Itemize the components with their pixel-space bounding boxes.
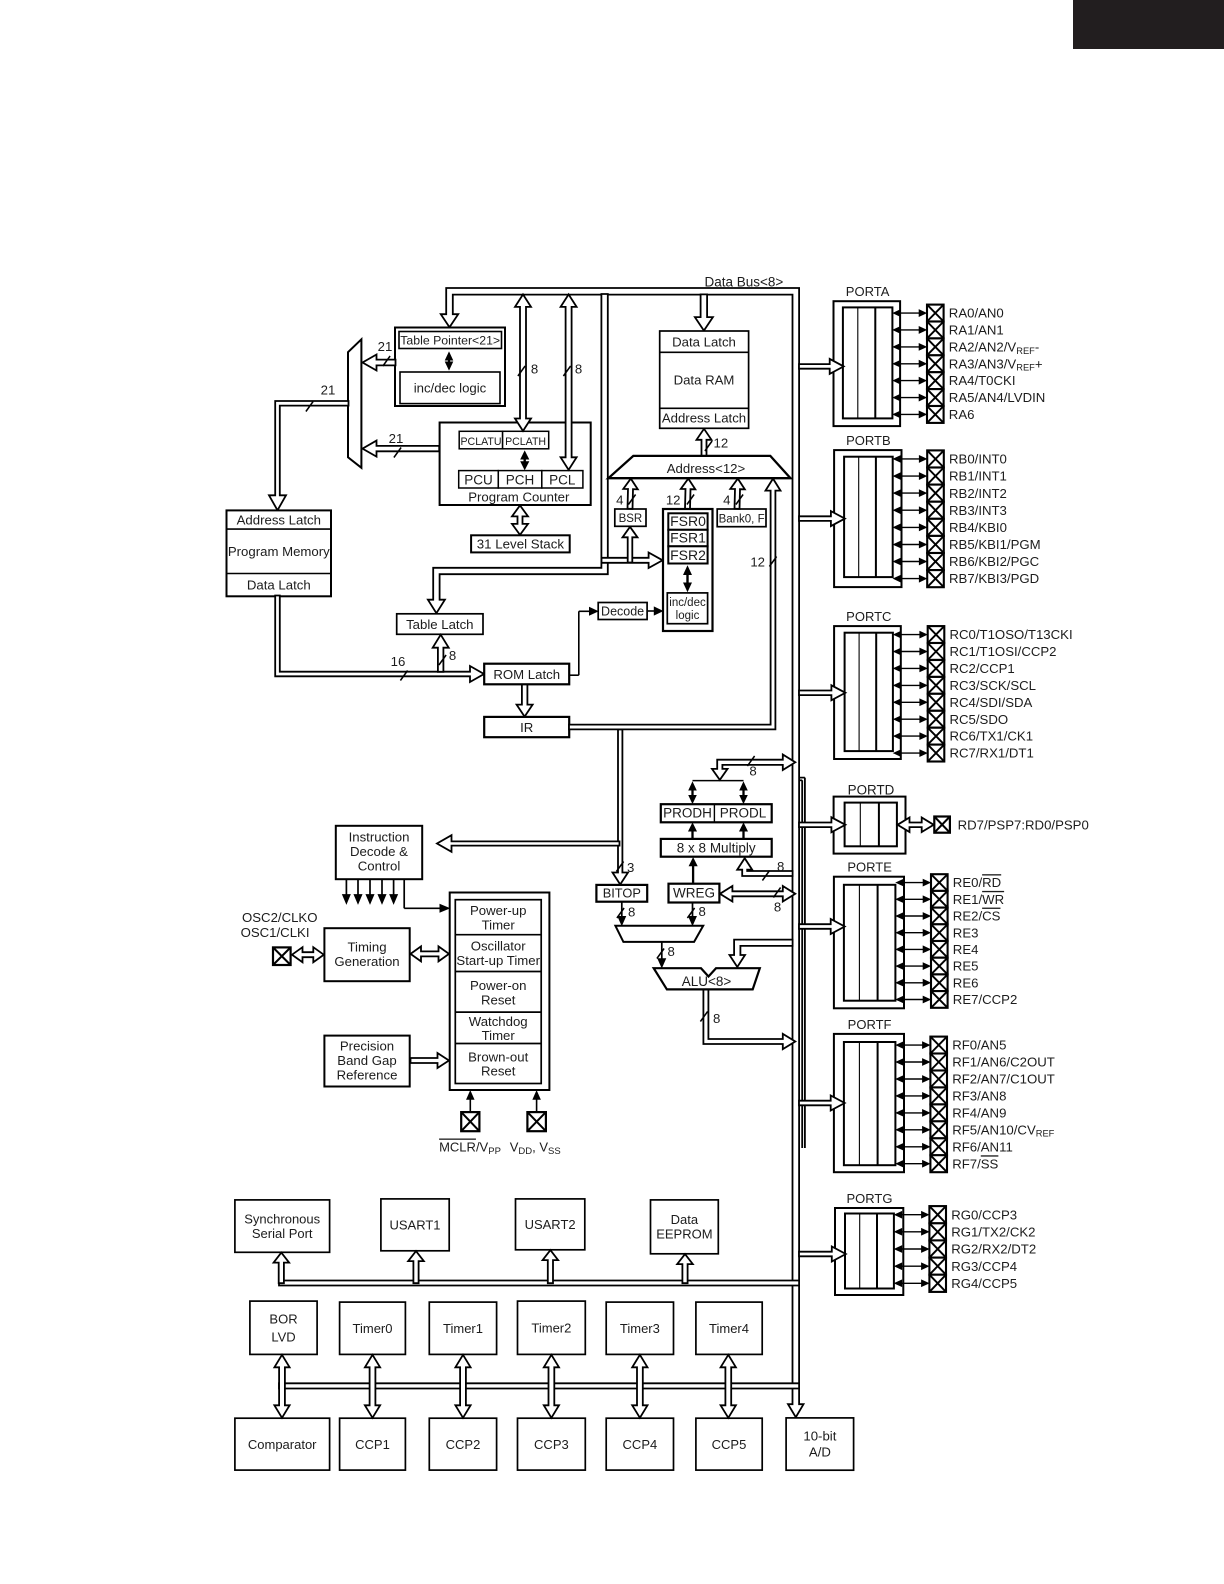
svg-text:RC7/RX1/DT1: RC7/RX1/DT1 xyxy=(950,746,1034,761)
wire: data bus to PORTA xyxy=(799,359,844,374)
svg-text:RA6: RA6 xyxy=(949,407,975,422)
register FSR0 xyxy=(668,513,707,530)
svg-text:PORTF: PORTF xyxy=(848,1017,892,1032)
svg-text:PORTD: PORTD xyxy=(848,783,895,798)
svg-text:OSC2/CLKO: OSC2/CLKO xyxy=(242,910,318,925)
wire: 8-bit bus to PCLATU/PCLATH xyxy=(515,294,531,431)
svg-text:USART1: USART1 xyxy=(389,1217,440,1232)
svg-text:31 Level Stack: 31 Level Stack xyxy=(477,536,565,551)
wire: Decode to FSR inc/dec xyxy=(648,610,657,612)
wire: PC to 31 Level Stack arrow xyxy=(512,505,528,535)
svg-text:Timing: Timing xyxy=(347,940,386,955)
black header bar (page corner) xyxy=(1073,0,1224,49)
svg-text:12: 12 xyxy=(750,555,765,570)
block: Precision Band Gap Reference xyxy=(324,1036,409,1087)
svg-text:RF7/SS: RF7/SS xyxy=(952,1156,998,1171)
svg-text:Timer3: Timer3 xyxy=(620,1321,660,1336)
PORTC pin pads xyxy=(928,626,945,643)
svg-text:Timer: Timer xyxy=(482,918,516,933)
mux: ALU input mux xyxy=(615,926,703,942)
svg-text:IR: IR xyxy=(520,720,533,735)
svg-text:Timer: Timer xyxy=(482,1028,516,1043)
svg-text:RA0/AN0: RA0/AN0 xyxy=(949,306,1004,321)
block: Timer4 xyxy=(696,1302,762,1354)
block: Timing Generation xyxy=(324,928,409,981)
svg-text:RG4/CCP5: RG4/CCP5 xyxy=(951,1276,1017,1291)
svg-text:RE1/WR: RE1/WR xyxy=(953,892,1004,907)
svg-text:RE3: RE3 xyxy=(953,925,979,940)
alu: ALU<8> xyxy=(654,968,760,989)
svg-text:RB4/KBI0: RB4/KBI0 xyxy=(949,520,1007,535)
wire: data bus to PORTE xyxy=(799,919,845,934)
svg-text:RE0/RD: RE0/RD xyxy=(953,875,1001,890)
wire: PRODH/PRODL to data bus xyxy=(712,755,795,780)
wire: peripheral bus row 2 (timers) xyxy=(279,1383,799,1388)
block: 31 Level Stack xyxy=(471,535,570,552)
svg-text:logic: logic xyxy=(676,610,700,622)
svg-text:8: 8 xyxy=(749,764,756,779)
svg-text:RF2/AN7/C1OUT: RF2/AN7/C1OUT xyxy=(952,1072,1055,1087)
PORTG pin pads xyxy=(929,1206,946,1223)
svg-text:Address Latch: Address Latch xyxy=(237,512,321,527)
svg-text:BOR: BOR xyxy=(269,1311,297,1326)
svg-text:BITOP: BITOP xyxy=(603,885,641,900)
wire: 16-bit bus Program Memory data latch to ROM Latch xyxy=(275,596,484,683)
block: Timer1 xyxy=(429,1302,496,1354)
block: CCP5 xyxy=(696,1418,762,1470)
svg-text:PCL: PCL xyxy=(549,472,576,487)
wire: PRODH vertical arrows xyxy=(691,788,693,798)
svg-text:RE4: RE4 xyxy=(953,942,979,957)
svg-text:OSC1/CLKI: OSC1/CLKI xyxy=(241,925,310,940)
block: USART2 xyxy=(516,1199,585,1250)
wire: 21-bit bus Table Pointer to mux xyxy=(363,355,396,371)
svg-text:Decode &: Decode & xyxy=(350,844,408,859)
svg-text:RC5/SDO: RC5/SDO xyxy=(950,712,1009,727)
svg-text:ALU<8>: ALU<8> xyxy=(682,974,732,989)
block: 8 x 8 Multiply xyxy=(661,839,772,857)
register Table Pointer<21> xyxy=(399,332,502,349)
svg-text:12: 12 xyxy=(714,436,729,451)
svg-text:USART2: USART2 xyxy=(525,1217,576,1232)
svg-text:Data Latch: Data Latch xyxy=(672,334,736,349)
register FSR1 xyxy=(668,530,707,547)
svg-text:inc/dec: inc/dec xyxy=(669,597,706,609)
svg-text:RE5: RE5 xyxy=(953,959,979,974)
PORTF pin arrows and labels xyxy=(901,1044,924,1046)
svg-text:RD7/PSP7:RD0/PSP0: RD7/PSP7:RD0/PSP0 xyxy=(958,817,1089,832)
svg-text:RE2/CS: RE2/CS xyxy=(953,909,1001,924)
svg-text:8 x 8 Multiply: 8 x 8 Multiply xyxy=(677,841,756,856)
wire: bus to USART2 xyxy=(543,1250,559,1283)
svg-text:PCU: PCU xyxy=(464,472,493,487)
svg-text:CCP3: CCP3 xyxy=(534,1437,569,1452)
svg-text:Address<12>: Address<12> xyxy=(667,461,746,476)
svg-text:Watchdog: Watchdog xyxy=(469,1014,528,1029)
svg-text:8: 8 xyxy=(575,362,582,377)
block: 10-bit A/D xyxy=(786,1418,854,1470)
svg-text:8: 8 xyxy=(777,859,784,874)
wire: data bus to PORTD xyxy=(799,817,845,832)
block: ROM Latch xyxy=(484,664,569,685)
svg-text:RB7/KBI3/PGD: RB7/KBI3/PGD xyxy=(949,571,1039,586)
svg-text:Timer0: Timer0 xyxy=(353,1321,393,1336)
svg-text:PORTC: PORTC xyxy=(846,609,891,624)
svg-text:Comparator: Comparator xyxy=(248,1437,317,1452)
svg-text:PORTA: PORTA xyxy=(846,284,890,299)
block: CCP3 xyxy=(518,1418,586,1470)
svg-text:PRODL: PRODL xyxy=(720,806,767,821)
wire: data bus to PORTF xyxy=(799,1096,845,1111)
wire: data bus feed into multiply xyxy=(737,858,792,876)
wire: control signal arrows xyxy=(345,880,347,898)
svg-text:Brown-out: Brown-out xyxy=(468,1049,528,1064)
svg-text:Data: Data xyxy=(671,1212,699,1227)
svg-text:8: 8 xyxy=(699,904,706,919)
svg-text:RC1/T1OSI/CCP2: RC1/T1OSI/CCP2 xyxy=(950,644,1057,659)
wire: WREG to ALU mux xyxy=(692,903,694,919)
pin: RD7..RD0 pad xyxy=(934,817,950,833)
block: Comparator xyxy=(235,1418,330,1470)
block: Program Counter group xyxy=(440,423,591,506)
svg-text:16: 16 xyxy=(391,654,406,669)
PORTE pin pads xyxy=(931,874,948,891)
svg-text:8: 8 xyxy=(628,905,635,920)
block: BOR LVD xyxy=(250,1301,317,1354)
pin: MCLR/VPP pad xyxy=(461,1112,479,1131)
svg-text:RA4/T0CKI: RA4/T0CKI xyxy=(949,373,1016,388)
wire: Timing Generation to reset block xyxy=(411,946,450,961)
svg-text:RE6: RE6 xyxy=(953,975,979,990)
svg-text:Decode: Decode xyxy=(601,605,644,619)
register WREG xyxy=(669,884,720,903)
svg-text:Timer1: Timer1 xyxy=(443,1321,483,1336)
svg-text:RF1/AN6/C2OUT: RF1/AN6/C2OUT xyxy=(952,1055,1055,1070)
PORTG pin arrows and labels xyxy=(900,1214,924,1216)
wire: 12-bit address to Data RAM address latch xyxy=(697,429,712,456)
svg-text:8: 8 xyxy=(668,944,675,959)
svg-text:Bank0, F: Bank0, F xyxy=(719,513,765,525)
register PCLATU xyxy=(459,431,502,449)
PORTA pin pads xyxy=(927,305,944,322)
block: FSR group xyxy=(663,509,713,631)
wire: 8-bit bus to PCL xyxy=(561,294,577,469)
wire: peripheral bus row 1 xyxy=(279,1281,799,1286)
svg-text:Reset: Reset xyxy=(481,1063,516,1078)
svg-text:RB1/INT1: RB1/INT1 xyxy=(949,469,1007,484)
svg-text:Program Memory: Program Memory xyxy=(228,544,330,559)
svg-text:ROM Latch: ROM Latch xyxy=(493,667,560,682)
block: Synchronous Serial Port xyxy=(235,1200,330,1252)
svg-text:PRODH: PRODH xyxy=(663,806,712,821)
block: Data EEPROM xyxy=(651,1200,719,1254)
svg-text:Serial Port: Serial Port xyxy=(252,1226,313,1241)
svg-text:RG0/CCP3: RG0/CCP3 xyxy=(951,1207,1017,1222)
wire: bus branch to Table Latch xyxy=(428,294,608,613)
register PRODH PRODL xyxy=(661,804,772,822)
svg-text:FSR0: FSR0 xyxy=(670,513,706,529)
wire: table pointer to inc/dec arrow xyxy=(448,358,450,364)
wire: FSR 12-bit into address mux xyxy=(681,479,696,509)
mux: program memory address multiplexer xyxy=(348,339,361,468)
svg-text:Power-on: Power-on xyxy=(470,978,526,993)
svg-text:8: 8 xyxy=(531,362,538,377)
wire: bus to Data xyxy=(677,1254,693,1283)
wire: PCLATH-PCH arrow xyxy=(524,457,526,464)
wire: BSR 4-bit into address mux xyxy=(623,479,638,509)
svg-text:FSR2: FSR2 xyxy=(670,547,706,563)
PORTC pin arrows and labels xyxy=(899,634,922,636)
block: Table Latch xyxy=(397,614,483,635)
svg-text:RF6/AN11: RF6/AN11 xyxy=(952,1139,1013,1154)
svg-text:EEPROM: EEPROM xyxy=(656,1227,712,1242)
svg-text:CCP1: CCP1 xyxy=(355,1437,390,1452)
svg-text:RA1/AN1: RA1/AN1 xyxy=(949,323,1004,338)
block: CCP4 xyxy=(606,1418,673,1470)
wire: band gap to reset block xyxy=(411,1053,450,1068)
svg-text:Start-up Timer: Start-up Timer xyxy=(456,953,540,968)
wire: ROM Latch to IR xyxy=(517,685,533,717)
svg-text:PORTB: PORTB xyxy=(846,433,891,448)
wire: Bank0,F 4-bit into address mux xyxy=(730,479,745,509)
svg-text:RA5/AN4/LVDIN: RA5/AN4/LVDIN xyxy=(949,390,1046,405)
block: BITOP xyxy=(596,885,647,902)
svg-text:LVD: LVD xyxy=(271,1329,295,1344)
PORTE pin arrows and labels xyxy=(901,882,925,884)
block: CCP2 xyxy=(429,1418,496,1470)
svg-text:Generation: Generation xyxy=(334,954,399,969)
svg-text:RF0/AN5: RF0/AN5 xyxy=(952,1038,1006,1053)
block: Instruction Decode & Control xyxy=(336,826,422,879)
svg-text:RC2/CCP1: RC2/CCP1 xyxy=(950,661,1015,676)
PORTB pin arrows and labels xyxy=(899,458,922,460)
wire: mux to ALU xyxy=(661,943,663,962)
svg-text:RC4/SDI/SDA: RC4/SDI/SDA xyxy=(950,695,1033,710)
svg-text:CCP5: CCP5 xyxy=(712,1437,747,1452)
svg-text:PORTG: PORTG xyxy=(847,1191,893,1206)
block: Timer0 xyxy=(340,1302,406,1354)
svg-text:PCH: PCH xyxy=(506,472,535,487)
svg-text:Precision: Precision xyxy=(340,1039,394,1054)
mux: Address<12> xyxy=(608,456,790,478)
svg-text:Power-up: Power-up xyxy=(470,903,526,918)
register PCLATH xyxy=(503,431,549,449)
PORTA pin arrows and labels xyxy=(898,312,921,314)
svg-text:Reset: Reset xyxy=(481,992,516,1007)
register PCU xyxy=(459,471,499,488)
svg-text:21: 21 xyxy=(389,431,404,446)
svg-text:RF5/AN10/CVREF: RF5/AN10/CVREF xyxy=(952,1122,1054,1138)
svg-text:12: 12 xyxy=(666,493,681,508)
block inc/dec logic (table pointer) xyxy=(400,372,500,404)
block: CCP1 xyxy=(340,1418,406,1470)
svg-text:8: 8 xyxy=(713,1011,720,1026)
block: Address Latch / Program Memory / Data Latch xyxy=(227,510,332,596)
svg-text:BSR: BSR xyxy=(619,513,643,525)
svg-text:RG1/TX2/CK2: RG1/TX2/CK2 xyxy=(951,1224,1035,1239)
block: IR instruction register xyxy=(484,717,569,737)
svg-text:A/D: A/D xyxy=(809,1445,831,1460)
svg-text:Band Gap: Band Gap xyxy=(337,1053,396,1068)
svg-text:RC3/SCK/SCL: RC3/SCK/SCL xyxy=(950,678,1036,693)
wire: multiply to PRODH/PRODL arrows xyxy=(691,829,693,839)
svg-text:RB3/INT3: RB3/INT3 xyxy=(949,503,1007,518)
svg-text:Reference: Reference xyxy=(337,1068,398,1083)
wire: OSC to Timing Generation xyxy=(292,947,324,962)
wire: BITOP to ALU mux xyxy=(621,902,623,919)
wire: 21-bit bus mux to Address Latch xyxy=(269,401,349,510)
svg-text:Program Counter: Program Counter xyxy=(468,489,570,504)
register FSR2 xyxy=(668,546,707,563)
wire: bus down into Data Latch of Data RAM xyxy=(695,294,713,330)
svg-text:Data Latch: Data Latch xyxy=(247,577,311,592)
wire: 21-bit bus Program Counter to mux xyxy=(363,441,440,457)
wire: data bus to PORTB xyxy=(799,511,845,526)
register BSR xyxy=(615,509,646,526)
svg-text:8: 8 xyxy=(774,900,781,915)
svg-text:RB0/INT0: RB0/INT0 xyxy=(949,452,1007,467)
wire: data bus to PORTC xyxy=(799,685,845,700)
svg-text:FSR1: FSR1 xyxy=(670,530,706,546)
wire: branch to Instruction Decode and Control xyxy=(437,835,620,852)
PORTF pin pads xyxy=(930,1037,947,1054)
block: Decode xyxy=(598,603,647,620)
register PCH xyxy=(498,471,542,488)
block: USART1 xyxy=(381,1199,449,1251)
register Bank0, F xyxy=(717,509,766,527)
svg-text:Synchronous: Synchronous xyxy=(244,1211,320,1226)
svg-text:4: 4 xyxy=(723,493,730,508)
svg-text:RA2/AN2/VREF-: RA2/AN2/VREF- xyxy=(949,340,1039,356)
svg-text:PCLATH: PCLATH xyxy=(505,436,546,448)
svg-text:RB2/INT2: RB2/INT2 xyxy=(949,486,1007,501)
svg-text:RA3/AN3/VREF+: RA3/AN3/VREF+ xyxy=(949,356,1043,372)
wire: data bus feed into ALU xyxy=(730,940,793,967)
block: Timer2 xyxy=(518,1301,586,1354)
svg-text:VDD, VSS: VDD, VSS xyxy=(510,1140,561,1158)
svg-text:PCLATU: PCLATU xyxy=(460,436,501,448)
svg-text:Table Pointer<21>: Table Pointer<21> xyxy=(400,334,500,348)
svg-text:Data Bus<8>: Data Bus<8> xyxy=(705,274,784,289)
node: PRODH/PRODL top link line xyxy=(693,780,744,782)
svg-text:Address Latch: Address Latch xyxy=(662,411,746,426)
svg-text:10-bit: 10-bit xyxy=(803,1429,836,1444)
svg-text:21: 21 xyxy=(378,339,393,354)
wire: 8-bit bus up into Table Latch xyxy=(433,635,449,672)
wire: IR output 12-bit into address mux xyxy=(569,479,781,730)
wire: secondary vertical bus branch (ports D-G) xyxy=(799,777,805,779)
wire: PORTD to pad xyxy=(898,818,934,833)
svg-text:PORTE: PORTE xyxy=(847,860,892,875)
svg-text:CCP2: CCP2 xyxy=(446,1437,481,1452)
svg-text:Timer2: Timer2 xyxy=(531,1320,571,1335)
block: Data Latch / Data RAM / Address Latch xyxy=(660,331,749,428)
wire: top Data Bus<8> + main vertical data bus down to 10-bit A/D xyxy=(441,288,804,1417)
PORTB pin pads xyxy=(927,450,944,467)
svg-text:Instruction: Instruction xyxy=(349,830,410,845)
svg-text:RB6/KBI2/PGC: RB6/KBI2/PGC xyxy=(949,554,1040,569)
svg-text:21: 21 xyxy=(321,383,336,398)
svg-text:RB5/KBI1/PGM: RB5/KBI1/PGM xyxy=(949,537,1041,552)
block inc/dec logic (FSR) xyxy=(667,593,707,624)
svg-text:RG2/RX2/DT2: RG2/RX2/DT2 xyxy=(951,1242,1036,1257)
block: reset and timers group xyxy=(450,893,550,1091)
wire: ALU output to data bus xyxy=(703,990,795,1050)
svg-text:Oscillator: Oscillator xyxy=(471,939,527,954)
wire: branch up into BSR xyxy=(623,527,638,563)
svg-text:MCLR/VPP: MCLR/VPP xyxy=(439,1140,501,1158)
svg-text:Data RAM: Data RAM xyxy=(674,372,735,387)
wire: FSR2 to inc/dec arrow xyxy=(686,572,688,585)
svg-text:RF3/AN8: RF3/AN8 xyxy=(952,1089,1006,1104)
wire: control line to Power-up Timer xyxy=(403,880,405,909)
svg-text:RF4/AN9: RF4/AN9 xyxy=(952,1106,1006,1121)
pin: VDD,VSS pad xyxy=(527,1112,546,1131)
wire: data bus to PORTG xyxy=(799,1247,846,1262)
svg-text:8: 8 xyxy=(449,648,456,663)
wire: WREG bidirectional data bus link xyxy=(720,886,795,902)
svg-text:3: 3 xyxy=(627,860,634,875)
svg-text:inc/dec logic: inc/dec logic xyxy=(414,380,487,395)
svg-text:RC0/T1OSO/T13CKI: RC0/T1OSO/T13CKI xyxy=(950,627,1073,642)
wire: branch to FSR bank xyxy=(602,553,663,569)
svg-text:RE7/CCP2: RE7/CCP2 xyxy=(953,992,1018,1007)
svg-text:WREG: WREG xyxy=(673,886,715,901)
wire: ROM Latch to Decode xyxy=(569,674,579,676)
wire: IR branch down to BITOP xyxy=(613,730,629,885)
register PCL xyxy=(542,471,583,488)
wire: timer-CCP double arrows xyxy=(274,1355,289,1418)
svg-text:CCP4: CCP4 xyxy=(623,1437,658,1452)
svg-text:Timer4: Timer4 xyxy=(709,1321,749,1336)
svg-text:RC6/TX1/CK1: RC6/TX1/CK1 xyxy=(950,729,1034,744)
wire: bus to USART1 xyxy=(408,1251,424,1283)
svg-text:Control: Control xyxy=(358,859,401,874)
svg-text:4: 4 xyxy=(616,493,623,508)
wire: bus to Synchronous xyxy=(274,1253,290,1284)
pin: OSC pad xyxy=(273,947,291,965)
block: Table Pointer / inc-dec logic group xyxy=(395,328,505,407)
svg-text:RG3/CCP4: RG3/CCP4 xyxy=(951,1259,1017,1274)
svg-text:Table Latch: Table Latch xyxy=(406,617,473,632)
wire: WREG to multiply xyxy=(692,864,694,883)
block: Timer3 xyxy=(606,1302,673,1354)
